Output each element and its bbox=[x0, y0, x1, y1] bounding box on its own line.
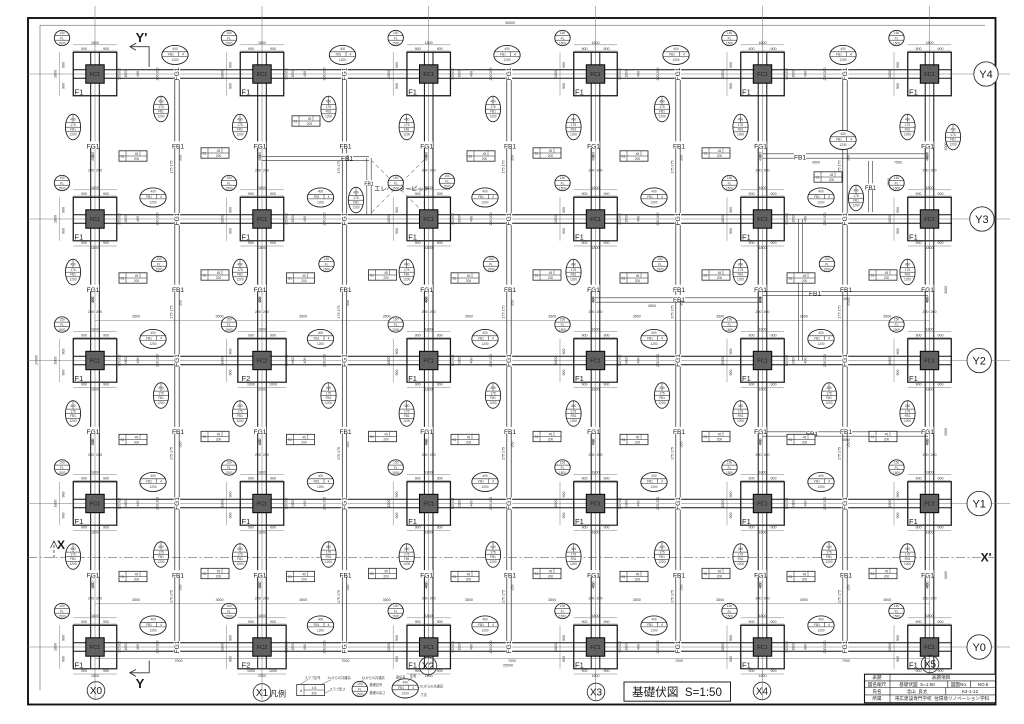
svg-text:400: 400 bbox=[804, 358, 808, 364]
svg-text:900: 900 bbox=[229, 370, 233, 376]
svg-text:900: 900 bbox=[229, 83, 233, 89]
svg-text:900: 900 bbox=[103, 525, 109, 529]
svg-text:1800: 1800 bbox=[792, 357, 796, 364]
svg-text:FG1: FG1 bbox=[675, 354, 682, 367]
svg-text:900: 900 bbox=[248, 620, 254, 624]
svg-text:FC1: FC1 bbox=[90, 359, 101, 365]
svg-text:FG1: FG1 bbox=[254, 287, 267, 294]
svg-text:900: 900 bbox=[896, 62, 900, 68]
svg-text:FC1: FC1 bbox=[90, 502, 101, 508]
svg-text:FG1: FG1 bbox=[87, 144, 100, 151]
svg-text:175 175: 175 175 bbox=[671, 447, 675, 460]
svg-text:1800: 1800 bbox=[124, 215, 128, 222]
svg-text:200 200: 200 200 bbox=[756, 453, 770, 457]
svg-text:900: 900 bbox=[415, 333, 421, 337]
svg-text:1000: 1000 bbox=[269, 669, 277, 673]
svg-text:FG1: FG1 bbox=[420, 287, 433, 294]
svg-text:基礎記号: 基礎記号 bbox=[370, 682, 383, 687]
svg-text:900 900: 900 900 bbox=[785, 355, 789, 367]
svg-text:1800: 1800 bbox=[425, 41, 433, 45]
svg-text:400: 400 bbox=[804, 71, 808, 77]
svg-text:900 900: 900 900 bbox=[618, 355, 622, 367]
svg-text:900: 900 bbox=[771, 47, 777, 51]
svg-text:3500: 3500 bbox=[800, 315, 808, 319]
svg-text:900: 900 bbox=[62, 370, 66, 376]
svg-text:900: 900 bbox=[229, 635, 233, 641]
svg-text:1800: 1800 bbox=[888, 643, 892, 651]
svg-text:200 200: 200 200 bbox=[156, 213, 160, 226]
svg-text:7500: 7500 bbox=[175, 659, 183, 663]
svg-text:K2-1-12: K2-1-12 bbox=[962, 689, 979, 694]
svg-text:3000: 3000 bbox=[944, 428, 948, 436]
svg-text:200 200: 200 200 bbox=[489, 213, 493, 226]
svg-text:1800: 1800 bbox=[425, 327, 433, 331]
svg-text:FG1: FG1 bbox=[174, 212, 181, 225]
svg-text:350: 350 bbox=[511, 155, 515, 161]
svg-text:200 200: 200 200 bbox=[255, 169, 269, 173]
svg-text:200 200: 200 200 bbox=[422, 310, 436, 314]
svg-text:900: 900 bbox=[896, 349, 900, 355]
svg-text:7000: 7000 bbox=[508, 659, 516, 663]
svg-text:1800: 1800 bbox=[387, 357, 391, 365]
svg-text:1800: 1800 bbox=[258, 530, 266, 534]
svg-text:FG1: FG1 bbox=[420, 144, 433, 151]
svg-text:900: 900 bbox=[562, 492, 566, 498]
svg-text:FC1: FC1 bbox=[924, 502, 935, 508]
svg-text:900: 900 bbox=[604, 241, 610, 245]
svg-text:350: 350 bbox=[346, 155, 350, 161]
svg-text:FC1: FC1 bbox=[423, 502, 434, 508]
svg-text:900: 900 bbox=[229, 349, 233, 355]
svg-text:FC1: FC1 bbox=[757, 217, 768, 223]
svg-text:900: 900 bbox=[729, 656, 733, 662]
svg-text:1800: 1800 bbox=[592, 186, 600, 190]
svg-text:400: 400 bbox=[303, 358, 307, 364]
svg-text:900: 900 bbox=[415, 192, 421, 196]
svg-text:5500: 5500 bbox=[842, 438, 850, 442]
svg-text:FG1: FG1 bbox=[506, 640, 513, 653]
svg-text:2000: 2000 bbox=[258, 387, 266, 391]
svg-text:1800: 1800 bbox=[291, 357, 295, 364]
svg-text:900: 900 bbox=[103, 333, 109, 337]
svg-text:3500: 3500 bbox=[633, 598, 641, 602]
svg-text:1800: 1800 bbox=[592, 530, 600, 534]
svg-text:1800: 1800 bbox=[258, 470, 266, 474]
svg-text:X4: X4 bbox=[756, 686, 769, 697]
svg-text:FG1: FG1 bbox=[506, 497, 513, 510]
svg-text:1800: 1800 bbox=[258, 327, 266, 331]
svg-text:3500: 3500 bbox=[716, 315, 724, 319]
svg-text:900: 900 bbox=[916, 382, 922, 386]
svg-text:900: 900 bbox=[437, 525, 443, 529]
svg-text:900: 900 bbox=[62, 228, 66, 234]
svg-text:FB1: FB1 bbox=[339, 287, 351, 294]
svg-text:900 900: 900 900 bbox=[118, 68, 122, 80]
svg-text:200 200: 200 200 bbox=[656, 354, 660, 367]
svg-text:FB1: FB1 bbox=[673, 429, 685, 436]
svg-text:1800: 1800 bbox=[554, 500, 558, 508]
svg-text:1800: 1800 bbox=[425, 614, 433, 618]
svg-text:900: 900 bbox=[81, 382, 87, 386]
svg-text:1800: 1800 bbox=[221, 500, 225, 508]
svg-text:基礎の高さ: 基礎の高さ bbox=[370, 690, 386, 695]
svg-text:900: 900 bbox=[62, 635, 66, 641]
svg-text:900: 900 bbox=[562, 656, 566, 662]
svg-text:400: 400 bbox=[136, 216, 140, 222]
svg-text:1800: 1800 bbox=[91, 530, 99, 534]
svg-text:XLからの共通高: XLからの共通高 bbox=[328, 675, 351, 680]
svg-text:900: 900 bbox=[562, 83, 566, 89]
svg-text:XLからの共通高: XLからの共通高 bbox=[420, 683, 443, 688]
svg-text:200 200: 200 200 bbox=[656, 213, 660, 226]
svg-text:FG1: FG1 bbox=[587, 287, 600, 294]
svg-text:1800: 1800 bbox=[387, 215, 391, 223]
svg-text:FG1: FG1 bbox=[842, 497, 849, 510]
svg-text:Y0: Y0 bbox=[972, 642, 985, 654]
svg-text:FC1: FC1 bbox=[90, 217, 101, 223]
svg-text:900: 900 bbox=[562, 513, 566, 519]
svg-text:400: 400 bbox=[470, 644, 474, 650]
svg-text:FG1: FG1 bbox=[87, 429, 100, 436]
svg-text:200 200: 200 200 bbox=[323, 354, 327, 367]
svg-text:1800: 1800 bbox=[759, 614, 767, 618]
svg-text:3500: 3500 bbox=[548, 315, 556, 319]
svg-text:FG1: FG1 bbox=[754, 144, 767, 151]
svg-text:460: 460 bbox=[592, 439, 596, 445]
svg-text:3500: 3500 bbox=[132, 315, 140, 319]
svg-text:Y1: Y1 bbox=[972, 498, 985, 510]
svg-text:1800: 1800 bbox=[926, 246, 934, 250]
svg-text:FB1: FB1 bbox=[339, 144, 351, 151]
svg-text:350: 350 bbox=[346, 442, 350, 448]
svg-text:1800: 1800 bbox=[458, 70, 462, 77]
svg-text:1800: 1800 bbox=[387, 500, 391, 508]
svg-text:400: 400 bbox=[804, 644, 808, 650]
svg-text:400: 400 bbox=[303, 501, 307, 507]
svg-text:1800: 1800 bbox=[592, 470, 600, 474]
svg-text:1800: 1800 bbox=[387, 643, 391, 651]
svg-text:900: 900 bbox=[604, 525, 610, 529]
svg-text:1800: 1800 bbox=[221, 215, 225, 223]
svg-text:3500: 3500 bbox=[216, 315, 224, 319]
svg-text:3500: 3500 bbox=[299, 598, 307, 602]
svg-text:460: 460 bbox=[592, 152, 596, 158]
svg-text:FC1: FC1 bbox=[757, 72, 768, 78]
svg-text:所属: 所属 bbox=[872, 695, 882, 702]
svg-text:1800: 1800 bbox=[54, 643, 58, 651]
svg-text:350: 350 bbox=[680, 155, 684, 161]
svg-text:900: 900 bbox=[749, 525, 755, 529]
svg-text:FG1: FG1 bbox=[420, 429, 433, 436]
svg-text:XLからの共通高: XLからの共通高 bbox=[362, 675, 385, 680]
svg-text:1800: 1800 bbox=[759, 674, 767, 678]
svg-text:FB1: FB1 bbox=[504, 573, 516, 580]
svg-text:200 200: 200 200 bbox=[923, 169, 937, 173]
svg-text:900 900: 900 900 bbox=[451, 213, 455, 225]
svg-text:900: 900 bbox=[582, 192, 588, 196]
svg-text:460: 460 bbox=[425, 152, 429, 158]
svg-text:FB1: FB1 bbox=[172, 573, 184, 580]
svg-text:900: 900 bbox=[916, 620, 922, 624]
svg-text:1800: 1800 bbox=[291, 215, 295, 222]
svg-text:X': X' bbox=[981, 551, 992, 565]
svg-text:900: 900 bbox=[248, 241, 254, 245]
svg-text:7000: 7000 bbox=[842, 659, 850, 663]
svg-text:4500: 4500 bbox=[648, 304, 656, 308]
svg-text:1800: 1800 bbox=[554, 70, 558, 78]
svg-text:FG1: FG1 bbox=[587, 144, 600, 151]
svg-text:900: 900 bbox=[415, 47, 421, 51]
svg-text:900: 900 bbox=[562, 207, 566, 213]
svg-text:900: 900 bbox=[604, 333, 610, 337]
svg-text:200 200: 200 200 bbox=[656, 497, 660, 510]
svg-text:900: 900 bbox=[248, 476, 254, 480]
svg-text:900: 900 bbox=[938, 241, 944, 245]
svg-text:900: 900 bbox=[604, 47, 610, 51]
svg-text:900: 900 bbox=[896, 83, 900, 89]
svg-text:FC1: FC1 bbox=[257, 502, 268, 508]
svg-text:900: 900 bbox=[896, 207, 900, 213]
svg-text:1800: 1800 bbox=[721, 357, 725, 365]
svg-text:3500: 3500 bbox=[548, 598, 556, 602]
svg-text:FC1: FC1 bbox=[90, 645, 101, 651]
svg-text:200 200: 200 200 bbox=[656, 641, 660, 654]
svg-text:900 900: 900 900 bbox=[285, 641, 289, 653]
svg-text:175 175: 175 175 bbox=[502, 306, 506, 319]
svg-text:FG1: FG1 bbox=[254, 429, 267, 436]
svg-text:1800: 1800 bbox=[759, 41, 767, 45]
svg-text:900: 900 bbox=[437, 192, 443, 196]
svg-text:200 200: 200 200 bbox=[255, 597, 269, 601]
svg-text:900: 900 bbox=[771, 525, 777, 529]
svg-text:900 900: 900 900 bbox=[451, 68, 455, 80]
svg-text:175 175: 175 175 bbox=[337, 306, 341, 319]
svg-text:200 200: 200 200 bbox=[422, 453, 436, 457]
svg-text:200 200: 200 200 bbox=[422, 169, 436, 173]
svg-text:FC2: FC2 bbox=[257, 359, 268, 365]
svg-text:FG1: FG1 bbox=[921, 144, 934, 151]
svg-text:900: 900 bbox=[103, 620, 109, 624]
svg-text:FG1: FG1 bbox=[754, 573, 767, 580]
svg-text:3500: 3500 bbox=[299, 315, 307, 319]
svg-text:200 200: 200 200 bbox=[323, 213, 327, 226]
svg-text:175 175: 175 175 bbox=[170, 161, 174, 174]
svg-text:400: 400 bbox=[637, 644, 641, 650]
svg-text:1800: 1800 bbox=[792, 643, 796, 650]
svg-text:F1: F1 bbox=[909, 88, 918, 97]
svg-text:1800: 1800 bbox=[91, 470, 99, 474]
svg-text:3500: 3500 bbox=[883, 598, 891, 602]
svg-text:900: 900 bbox=[938, 525, 944, 529]
svg-text:1800: 1800 bbox=[926, 387, 934, 391]
svg-text:900: 900 bbox=[270, 47, 276, 51]
svg-text:NO.6: NO.6 bbox=[978, 682, 989, 687]
svg-text:900: 900 bbox=[395, 207, 399, 213]
svg-text:460: 460 bbox=[91, 297, 95, 303]
svg-text:350: 350 bbox=[179, 300, 183, 306]
svg-text:FG1: FG1 bbox=[675, 640, 682, 653]
svg-text:900 900: 900 900 bbox=[785, 213, 789, 225]
svg-text:900: 900 bbox=[103, 382, 109, 386]
svg-text:900: 900 bbox=[562, 228, 566, 234]
svg-text:900: 900 bbox=[771, 382, 777, 386]
svg-text:460: 460 bbox=[425, 297, 429, 303]
svg-text:FG1: FG1 bbox=[174, 497, 181, 510]
svg-text:1800: 1800 bbox=[888, 70, 892, 78]
svg-text:3500: 3500 bbox=[465, 598, 473, 602]
svg-text:FB1: FB1 bbox=[172, 144, 184, 151]
svg-text:900: 900 bbox=[81, 47, 87, 51]
svg-text:900 900: 900 900 bbox=[118, 641, 122, 653]
svg-text:1800: 1800 bbox=[926, 41, 934, 45]
svg-text:900: 900 bbox=[582, 241, 588, 245]
svg-text:900: 900 bbox=[437, 620, 443, 624]
svg-text:1800: 1800 bbox=[926, 530, 934, 534]
svg-text:900: 900 bbox=[582, 525, 588, 529]
svg-text:FC1: FC1 bbox=[757, 359, 768, 365]
svg-text:900: 900 bbox=[395, 83, 399, 89]
svg-text:Y3: Y3 bbox=[975, 214, 988, 226]
svg-text:FG1: FG1 bbox=[587, 429, 600, 436]
svg-text:400: 400 bbox=[136, 71, 140, 77]
svg-text:X2: X2 bbox=[422, 661, 435, 672]
svg-text:900: 900 bbox=[604, 620, 610, 624]
svg-text:FB1: FB1 bbox=[339, 573, 351, 580]
svg-text:900: 900 bbox=[248, 525, 254, 529]
svg-text:200 200: 200 200 bbox=[88, 310, 102, 314]
svg-text:900: 900 bbox=[81, 620, 87, 624]
svg-text:1800: 1800 bbox=[625, 357, 629, 364]
svg-text:FB1: FB1 bbox=[504, 287, 516, 294]
svg-text:900: 900 bbox=[916, 241, 922, 245]
svg-text:1800: 1800 bbox=[926, 614, 934, 618]
svg-text:FG1: FG1 bbox=[87, 573, 100, 580]
svg-text:900: 900 bbox=[749, 333, 755, 337]
svg-text:24000: 24000 bbox=[35, 355, 39, 365]
svg-text:460: 460 bbox=[91, 152, 95, 158]
svg-text:900: 900 bbox=[771, 620, 777, 624]
svg-text:900: 900 bbox=[604, 382, 610, 386]
svg-text:350: 350 bbox=[680, 300, 684, 306]
svg-text:1800: 1800 bbox=[91, 327, 99, 331]
svg-text:900: 900 bbox=[938, 620, 944, 624]
svg-text:1800: 1800 bbox=[888, 215, 892, 223]
svg-text:2000: 2000 bbox=[258, 674, 266, 678]
svg-text:175 175: 175 175 bbox=[838, 590, 842, 603]
svg-text:図名縮尺: 図名縮尺 bbox=[868, 681, 887, 688]
svg-text:200 200: 200 200 bbox=[323, 68, 327, 81]
svg-text:175 175: 175 175 bbox=[337, 590, 341, 603]
svg-text:900: 900 bbox=[604, 669, 610, 673]
svg-text:200 200: 200 200 bbox=[756, 169, 770, 173]
svg-text:1800: 1800 bbox=[124, 643, 128, 650]
svg-text:460: 460 bbox=[926, 439, 930, 445]
svg-text:1800: 1800 bbox=[759, 470, 767, 474]
svg-text:900: 900 bbox=[562, 370, 566, 376]
svg-text:1800: 1800 bbox=[91, 387, 99, 391]
svg-text:900: 900 bbox=[248, 47, 254, 51]
svg-text:200 200: 200 200 bbox=[823, 213, 827, 226]
svg-text:1800: 1800 bbox=[592, 246, 600, 250]
svg-text:1800: 1800 bbox=[554, 215, 558, 223]
svg-text:200 200: 200 200 bbox=[656, 68, 660, 81]
svg-text:900: 900 bbox=[62, 83, 66, 89]
svg-text:FG1: FG1 bbox=[842, 354, 849, 367]
svg-text:Y4: Y4 bbox=[979, 69, 992, 81]
svg-text:FG1: FG1 bbox=[342, 354, 349, 367]
svg-text:460: 460 bbox=[91, 582, 95, 588]
svg-text:900: 900 bbox=[749, 476, 755, 480]
svg-text:200 200: 200 200 bbox=[156, 68, 160, 81]
svg-text:FG1: FG1 bbox=[842, 640, 849, 653]
svg-text:900: 900 bbox=[270, 525, 276, 529]
svg-text:200 200: 200 200 bbox=[823, 497, 827, 510]
svg-text:1800: 1800 bbox=[91, 186, 99, 190]
svg-text:900: 900 bbox=[81, 525, 87, 529]
svg-text:FB1: FB1 bbox=[504, 429, 516, 436]
svg-text:200 200: 200 200 bbox=[823, 354, 827, 367]
svg-text:FG1: FG1 bbox=[174, 354, 181, 367]
svg-text:900: 900 bbox=[896, 370, 900, 376]
svg-text:900: 900 bbox=[562, 349, 566, 355]
svg-text:Y2: Y2 bbox=[972, 355, 985, 367]
svg-text:スラブ厚さ: スラブ厚さ bbox=[330, 687, 346, 692]
svg-text:FG1: FG1 bbox=[87, 287, 100, 294]
svg-text:350: 350 bbox=[847, 442, 851, 448]
svg-text:900: 900 bbox=[749, 620, 755, 624]
svg-text:350: 350 bbox=[179, 585, 183, 591]
svg-text:FB1: FB1 bbox=[840, 287, 852, 294]
svg-text:1800: 1800 bbox=[625, 215, 629, 222]
svg-text:460: 460 bbox=[258, 297, 262, 303]
svg-text:400: 400 bbox=[804, 501, 808, 507]
svg-text:175 175: 175 175 bbox=[671, 306, 675, 319]
svg-text:400: 400 bbox=[470, 216, 474, 222]
svg-text:1800: 1800 bbox=[926, 327, 934, 331]
svg-text:梁記号: 梁記号 bbox=[396, 675, 406, 680]
svg-text:900: 900 bbox=[395, 62, 399, 68]
svg-text:定着: 定着 bbox=[410, 673, 416, 678]
svg-text:Y: Y bbox=[136, 676, 145, 691]
svg-text:400: 400 bbox=[637, 71, 641, 77]
svg-text:350: 350 bbox=[680, 442, 684, 448]
svg-text:900: 900 bbox=[248, 333, 254, 337]
svg-text:900: 900 bbox=[395, 370, 399, 376]
svg-text:200 200: 200 200 bbox=[489, 641, 493, 654]
svg-text:900: 900 bbox=[582, 382, 588, 386]
svg-text:200 200: 200 200 bbox=[589, 310, 603, 314]
svg-text:1800: 1800 bbox=[792, 215, 796, 222]
svg-text:FB1: FB1 bbox=[172, 429, 184, 436]
svg-text:F1: F1 bbox=[408, 88, 417, 97]
svg-text:1800: 1800 bbox=[291, 70, 295, 77]
svg-text:1800: 1800 bbox=[625, 70, 629, 77]
svg-text:200 200: 200 200 bbox=[88, 169, 102, 173]
svg-text:900: 900 bbox=[81, 241, 87, 245]
svg-text:350: 350 bbox=[511, 300, 515, 306]
svg-text:FG1: FG1 bbox=[587, 573, 600, 580]
svg-text:460: 460 bbox=[258, 582, 262, 588]
svg-text:200 200: 200 200 bbox=[323, 641, 327, 654]
svg-text:1800: 1800 bbox=[221, 643, 225, 651]
svg-text:175 175: 175 175 bbox=[337, 447, 341, 460]
svg-text:900: 900 bbox=[771, 476, 777, 480]
svg-text:200 200: 200 200 bbox=[422, 597, 436, 601]
svg-text:1800: 1800 bbox=[425, 530, 433, 534]
svg-text:200 200: 200 200 bbox=[255, 453, 269, 457]
svg-text:FG1: FG1 bbox=[754, 287, 767, 294]
svg-text:FG1: FG1 bbox=[420, 573, 433, 580]
